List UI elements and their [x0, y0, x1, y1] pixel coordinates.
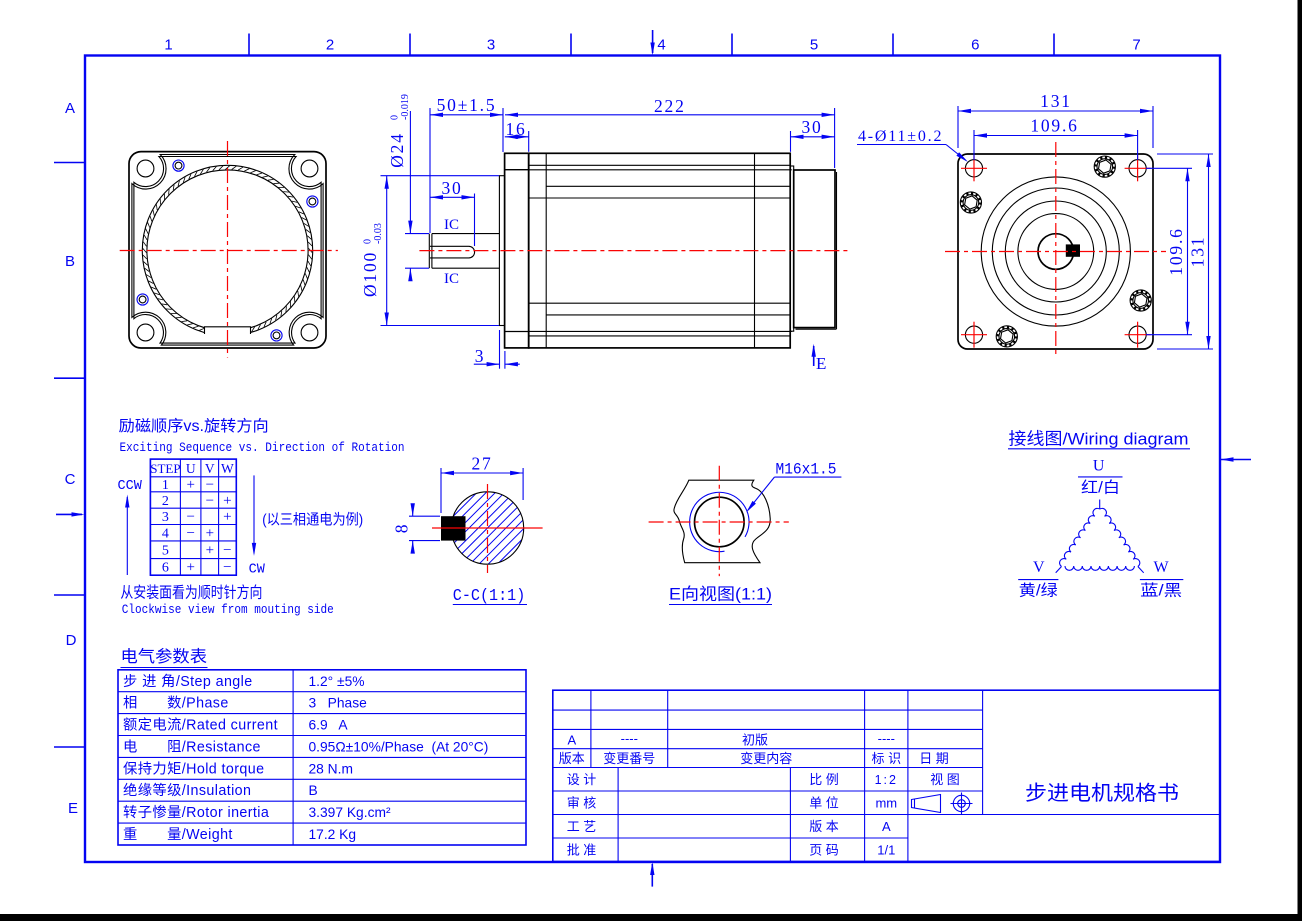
- svg-text:1/1: 1/1: [877, 843, 895, 858]
- svg-text:-0.019: -0.019: [400, 94, 411, 120]
- E view outline: [674, 480, 770, 563]
- svg-text:0.95Ω±10%/Phase (At 20°C): 0.95Ω±10%/Phase (At 20°C): [309, 740, 489, 755]
- svg-text:30: 30: [441, 178, 462, 198]
- front view screw holes (blue): [307, 196, 318, 207]
- svg-text:重 量/Weight: 重 量/Weight: [123, 826, 233, 843]
- svg-text:3 Phase: 3 Phase: [309, 696, 368, 711]
- svg-text:Ø100: Ø100: [360, 251, 380, 297]
- centering arrow bottom: [651, 864, 653, 887]
- svg-text:初版: 初版: [742, 732, 768, 747]
- svg-text:+: +: [206, 543, 214, 559]
- svg-text:28 N.m: 28 N.m: [309, 761, 353, 776]
- svg-text:−: −: [206, 493, 214, 509]
- svg-text:变更番号: 变更番号: [603, 751, 655, 766]
- svg-text:6: 6: [162, 561, 169, 576]
- svg-text:CW: CW: [249, 563, 266, 578]
- svg-text:变更内容: 变更内容: [740, 751, 792, 766]
- front view pilot circles: [142, 165, 312, 335]
- svg-text:C: C: [65, 471, 76, 488]
- rear view keyway black: [1066, 244, 1080, 256]
- title block: [553, 690, 1220, 861]
- svg-text:3: 3: [162, 510, 169, 525]
- svg-text:U: U: [1093, 458, 1105, 475]
- svg-text:4-Ø11±0.2: 4-Ø11±0.2: [858, 128, 943, 145]
- front view corner mounting holes: [137, 160, 154, 177]
- svg-text:109.6: 109.6: [1166, 227, 1186, 275]
- svg-text:1: 1: [164, 37, 172, 54]
- svg-text:版本: 版本: [559, 751, 585, 766]
- svg-text:−: −: [223, 560, 231, 576]
- svg-text:C-C(1:1): C-C(1:1): [453, 586, 526, 605]
- svg-text:W: W: [221, 461, 234, 476]
- svg-text:页 码: 页 码: [809, 843, 839, 858]
- svg-text:相 数/Phase: 相 数/Phase: [123, 695, 229, 712]
- svg-text:Ø24: Ø24: [387, 132, 407, 168]
- svg-text:电气参数表: 电气参数表: [121, 647, 208, 666]
- svg-text:工 艺: 工 艺: [567, 819, 597, 834]
- side view body: [529, 153, 791, 348]
- side view body step lines: [529, 164, 791, 166]
- E view centerlines: [649, 521, 789, 523]
- step table: [150, 458, 236, 460]
- svg-text:标 识: 标 识: [871, 751, 901, 766]
- svg-text:131: 131: [1040, 91, 1072, 111]
- svg-text:保持力矩/Hold torque: 保持力矩/Hold torque: [123, 760, 264, 777]
- svg-text:8: 8: [392, 523, 412, 534]
- C-C shaft circle: [451, 492, 523, 564]
- svg-text:Exciting Sequence vs. Directio: Exciting Sequence vs. Direction of Rotat…: [120, 440, 405, 455]
- side view flange: [505, 153, 529, 348]
- front view inner contour: [132, 155, 323, 346]
- view arrow E: [813, 346, 815, 366]
- projection symbol circle: [953, 795, 969, 811]
- E view hole: [695, 497, 745, 547]
- rear view hex socket screws: [1094, 156, 1115, 177]
- sheet edge strip right: [1298, 0, 1302, 921]
- side view rear plate: [790, 166, 794, 331]
- svg-text:+: +: [186, 560, 194, 576]
- svg-text:7: 7: [1132, 37, 1140, 54]
- svg-text:17.2 Kg: 17.2 Kg: [309, 827, 357, 842]
- centering arrow right: [1221, 459, 1252, 461]
- svg-text:2: 2: [326, 37, 334, 54]
- rear view centerlines: [1055, 142, 1057, 358]
- svg-text:IC: IC: [444, 217, 459, 233]
- svg-text:1:2: 1:2: [875, 773, 898, 787]
- svg-text:−: −: [206, 477, 214, 493]
- svg-text:设 计: 设 计: [567, 772, 597, 787]
- svg-text:批 准: 批 准: [567, 843, 597, 858]
- svg-text:CCW: CCW: [118, 479, 143, 494]
- svg-text:电 阻/Resistance: 电 阻/Resistance: [123, 739, 261, 756]
- rear view square: [958, 154, 1153, 349]
- svg-text:−: −: [186, 509, 194, 525]
- svg-text:W: W: [1153, 559, 1169, 576]
- zone ticks top: [248, 34, 250, 56]
- svg-text:B: B: [309, 783, 318, 798]
- svg-text:mm: mm: [875, 796, 897, 811]
- centering arrow top: [652, 30, 654, 53]
- elec params table: [118, 670, 526, 845]
- svg-text:黄/绿: 黄/绿: [1019, 582, 1059, 600]
- svg-text:STEP: STEP: [150, 461, 180, 476]
- svg-text:V: V: [205, 461, 215, 476]
- svg-text:额定电流/Rated current: 额定电流/Rated current: [123, 717, 278, 734]
- svg-text:红/白: 红/白: [1081, 479, 1120, 497]
- svg-text:E: E: [816, 354, 826, 373]
- svg-text:审 核: 审 核: [567, 796, 597, 811]
- svg-text:版 本: 版 本: [809, 819, 839, 834]
- zone ticks left: [54, 162, 85, 164]
- svg-text:6: 6: [971, 37, 979, 54]
- rear view corner holes + red crosses: [965, 160, 982, 177]
- svg-text:131: 131: [1188, 236, 1208, 268]
- svg-text:日 期: 日 期: [919, 751, 949, 766]
- side view centerline: [419, 250, 851, 252]
- svg-text:单 位: 单 位: [809, 796, 839, 811]
- svg-text:接线图/Wiring diagram: 接线图/Wiring diagram: [1009, 430, 1189, 449]
- svg-text:-0.03: -0.03: [373, 223, 384, 244]
- svg-text:(以三相通电为例): (以三相通电为例): [262, 512, 363, 529]
- svg-text:1.2° ±5%: 1.2° ±5%: [309, 674, 365, 689]
- svg-text:转子惨量/Rotor inertia: 转子惨量/Rotor inertia: [123, 804, 269, 821]
- rear view concentric circles: [981, 177, 1130, 326]
- front view centerlines: [227, 141, 229, 358]
- svg-text:Clockwise view from mouting si: Clockwise view from mouting side: [122, 602, 334, 617]
- svg-text:−: −: [223, 543, 231, 559]
- svg-text:+: +: [223, 509, 231, 525]
- svg-text:IC: IC: [444, 271, 459, 287]
- centering arrow left: [56, 513, 82, 515]
- svg-text:6.9 A: 6.9 A: [309, 718, 349, 733]
- sheet edge strip bottom: [0, 914, 1302, 921]
- svg-text:A: A: [882, 819, 891, 834]
- svg-text:绝缘等级/Insulation: 绝缘等级/Insulation: [123, 781, 251, 799]
- svg-text:−: −: [186, 526, 194, 542]
- svg-text:4: 4: [162, 527, 169, 542]
- front view outer square: [129, 152, 326, 348]
- svg-text:3: 3: [487, 37, 495, 54]
- svg-text:励磁顺序vs.旋转方向: 励磁顺序vs.旋转方向: [119, 417, 269, 435]
- svg-text:A: A: [65, 100, 75, 117]
- projection symbol trapezoid: [912, 795, 941, 813]
- svg-text:步进电机规格书: 步进电机规格书: [1025, 782, 1179, 805]
- front view bottom notch: [205, 327, 251, 338]
- svg-text:5: 5: [162, 544, 169, 559]
- svg-text:2: 2: [162, 494, 169, 509]
- side view pilot boss: [499, 176, 504, 326]
- svg-text:50±1.5: 50±1.5: [437, 95, 497, 115]
- E view thread arc (blue): [690, 492, 749, 551]
- svg-text:5: 5: [810, 37, 818, 54]
- svg-text:0: 0: [363, 239, 374, 244]
- svg-text:+: +: [223, 493, 231, 509]
- svg-text:30: 30: [801, 117, 822, 137]
- svg-text:222: 222: [654, 96, 686, 116]
- svg-text:109.6: 109.6: [1030, 116, 1078, 136]
- svg-text:步 进 角/Step angle: 步 进 角/Step angle: [123, 673, 253, 690]
- svg-text:E向视图(1:1): E向视图(1:1): [669, 585, 772, 604]
- svg-text:E: E: [68, 800, 78, 817]
- wiring coil triangle: [1099, 500, 1101, 510]
- side view shaft: [432, 233, 500, 235]
- C-C keyway black: [441, 516, 466, 540]
- svg-text:1: 1: [162, 478, 169, 493]
- svg-text:M16x1.5: M16x1.5: [776, 461, 837, 479]
- rear view shaft hole: [1038, 234, 1074, 270]
- svg-text:B: B: [65, 253, 75, 270]
- border frame: [85, 56, 1220, 863]
- svg-text:比 例: 比 例: [809, 772, 839, 787]
- svg-text:3: 3: [475, 346, 486, 366]
- svg-text:视 图: 视 图: [930, 772, 960, 787]
- svg-text:U: U: [186, 461, 196, 476]
- svg-text:A: A: [567, 732, 576, 747]
- svg-text:D: D: [66, 632, 77, 649]
- svg-text:+: +: [186, 477, 194, 493]
- side view rear housing: [794, 170, 835, 328]
- svg-text:0: 0: [390, 115, 401, 120]
- C-C centerlines: [432, 527, 543, 529]
- svg-text:蓝/黑: 蓝/黑: [1140, 582, 1182, 600]
- svg-text:----: ----: [621, 731, 638, 746]
- svg-text:V: V: [1033, 559, 1045, 576]
- side view shaft keyway: [430, 246, 475, 258]
- svg-text:----: ----: [878, 731, 895, 746]
- svg-text:从安装面看为顺时针方向: 从安装面看为顺时针方向: [120, 584, 262, 602]
- svg-text:3.397 Kg.cm²: 3.397 Kg.cm²: [309, 805, 391, 820]
- svg-text:+: +: [206, 526, 214, 542]
- svg-text:27: 27: [471, 454, 492, 474]
- svg-text:4: 4: [657, 37, 665, 54]
